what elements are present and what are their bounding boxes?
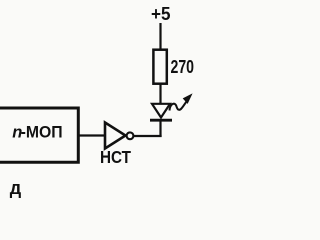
svg-text:НСТ: НСТ [100,147,131,167]
svg-text:+5: +5 [151,4,171,24]
svg-text:-МОП: -МОП [21,123,63,141]
svg-text:д: д [10,178,22,198]
svg-text:270: 270 [171,56,195,77]
